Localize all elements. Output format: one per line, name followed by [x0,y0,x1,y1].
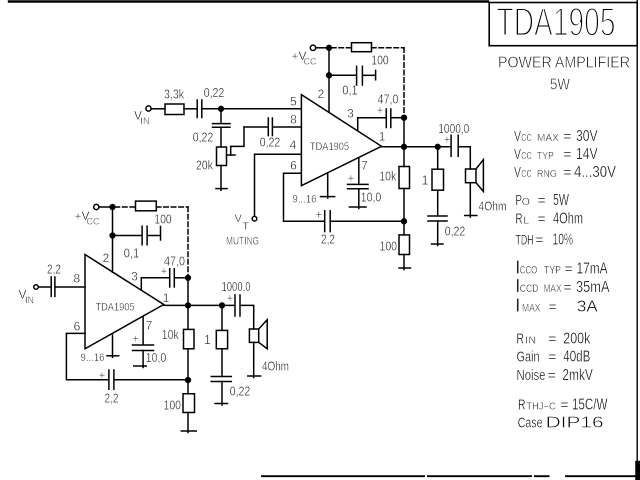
svg-text:10k: 10k [162,328,180,342]
svg-text:IN: IN [525,335,536,347]
svg-text:TDA1905: TDA1905 [310,141,349,153]
page right border [636,0,638,480]
svg-text:TYP: TYP [544,264,561,276]
speaker LS1 [466,169,477,183]
wire pot to ground [220,166,222,191]
svg-text:TDA1905: TDA1905 [96,302,135,314]
svg-text:IN: IN [141,116,150,126]
capacitor C9 0,22 zobel [428,215,447,217]
svg-text:Case: Case [518,415,543,431]
wire 9...16 stub U2 [112,333,114,357]
capacitor C2 0,22 shunt [213,123,231,125]
wire rail to R3 [403,147,405,167]
resistor R2 100 [352,43,372,52]
wire speaker to ground [469,183,471,217]
svg-text:2: 2 [103,251,110,265]
svg-text:17mA: 17mA [577,260,608,277]
svg-text:100: 100 [380,240,398,254]
svg-text:=: = [548,331,556,347]
capacitor C6 10,0 [348,183,369,185]
wire VIN1 to R1 [151,108,165,110]
svg-text:I: I [515,296,520,316]
svg-text:100: 100 [371,54,389,68]
wire 9...16 stub [327,173,329,198]
capacitor C11 0,1 [141,226,143,245]
wire C14 to node C [114,379,188,381]
svg-text:0,22: 0,22 [260,136,281,150]
svg-text:+: + [348,173,355,185]
capacitor C8 1000,0 output [450,135,452,156]
svg-text:CC: CC [521,150,532,162]
svg-text:=: = [548,367,556,383]
terminal VT muting [252,216,257,221]
ground 9...16 U2 [107,355,119,357]
resistor R7 10k [184,329,195,348]
capacitor C16 0,22 zobel U2 [211,376,231,378]
terminal VIN1 [146,106,151,111]
resistor R5 1 [432,169,444,190]
svg-text:0,22: 0,22 [193,131,214,145]
svg-text:T: T [243,220,250,232]
svg-text:35mA: 35mA [576,279,610,296]
svg-text:=: = [538,211,546,227]
svg-text:RNG: RNG [537,168,557,180]
page bottom border [262,475,636,477]
wire pin6 loop [284,173,324,221]
svg-text:4: 4 [290,138,297,152]
node C11 end tick [160,227,162,241]
node output junction U2 [186,303,191,308]
svg-text:=: = [565,260,573,276]
op-amp U1 triangle [301,95,381,186]
node pin2/C11 junction [110,233,115,238]
svg-text:47,0: 47,0 [378,92,399,106]
wire C2 to pot [220,127,222,147]
svg-text:2: 2 [318,87,325,101]
wire R3 to node B [403,189,405,235]
resistor R3 10k [399,167,410,189]
capacitor C7 2,2 feedback [324,211,326,232]
terminal +Vcc1 [310,45,315,50]
svg-text:10%: 10% [553,231,574,248]
page top border [9,0,488,2]
svg-text:3: 3 [131,270,138,284]
svg-text:CC: CC [521,132,532,144]
node Vcc2 junction [110,205,115,210]
svg-text:POWER AMPLIFIER: POWER AMPLIFIER [498,55,630,72]
wire dashed R2 to rail [372,47,405,49]
node B feedback junction [402,219,407,224]
svg-text:Noise: Noise [517,368,546,384]
ground 9...16 [321,196,335,198]
svg-text:30V: 30V [576,128,598,145]
wire zobel down [437,147,439,169]
capacitor C13 10,0 [133,344,154,346]
capacitor C14 2,2 feedback U2 [108,370,110,389]
wire dashed Vcc2 to R6 [115,206,136,208]
svg-text:=: = [538,192,546,208]
svg-text:+: + [161,266,168,278]
wire output U2 [164,304,235,306]
wire pin7 stub U2 [142,316,144,344]
wire rail to R7 [187,305,189,329]
wire zobel down U2 [221,305,223,330]
node rail top junction [402,115,407,120]
svg-text:Gain: Gain [517,350,540,366]
wire C12 to rail [175,277,188,279]
node C4 end tick [375,70,377,79]
ground pot [216,188,227,190]
svg-text:=: = [535,231,543,247]
wire dashed rail down U2 [187,207,189,275]
wire to C11 [113,235,142,237]
svg-text:1: 1 [379,130,386,144]
svg-text:+: + [227,293,234,305]
svg-text:7: 7 [361,159,368,173]
svg-text:10,0: 10,0 [146,351,167,365]
resistor R8 100 [183,394,195,413]
wire R9 to C16 [221,349,223,376]
svg-text:MAX: MAX [537,132,559,144]
wire rail to output [403,118,405,147]
wire C8 to speaker [459,147,471,169]
wire R1 to C1 [184,108,197,110]
svg-text:1000,0: 1000,0 [222,280,251,294]
wire to C3 [244,126,268,128]
svg-text:V: V [514,146,521,163]
svg-text:6: 6 [290,159,297,173]
svg-text:+: + [377,105,384,117]
svg-text:DIP16: DIP16 [546,414,604,431]
capacitor C12 47,0 [169,269,171,287]
wire pin2 vertical U2 [112,207,114,272]
svg-text:20k: 20k [196,159,214,173]
svg-text:9...16: 9...16 [293,194,317,206]
svg-text:CC: CC [521,168,532,180]
svg-text:2,2: 2,2 [321,233,335,247]
wire dashed Vcc to R2 [332,47,352,49]
node rail top junction U2 [186,275,191,280]
wire dashed R6 to rail [156,206,188,208]
svg-text:2,2: 2,2 [105,392,119,406]
wire pin2 vertical [328,48,330,113]
svg-text:7: 7 [146,319,153,333]
svg-text:MAX: MAX [522,303,541,315]
svg-text:L: L [523,215,529,227]
svg-text:3: 3 [347,107,354,121]
svg-text:5W: 5W [553,192,570,209]
capacitor C3 0,22 pin8 [267,118,269,136]
svg-text:8: 8 [73,271,80,285]
wire pin4 [255,154,302,216]
wire rail to output U2 [187,278,189,306]
wire C15 to speaker [241,305,254,329]
terminal +Vcc2 [94,204,99,209]
svg-text:10,0: 10,0 [361,191,382,205]
svg-text:4Ohm: 4Ohm [479,200,507,214]
resistor R9 1 [216,330,227,348]
svg-text:TYP: TYP [537,150,554,162]
wire wiper riser [231,127,244,155]
node output junction [402,144,407,149]
svg-text:2mkV: 2mkV [562,367,593,384]
svg-text:MAX: MAX [544,283,562,295]
resistor R4 100 [399,235,410,255]
wire Vcc2 to node [99,206,113,208]
svg-text:5: 5 [290,95,297,109]
svg-text:1: 1 [163,291,170,305]
svg-text:THJ–C: THJ–C [526,401,556,413]
svg-text:1: 1 [422,174,429,188]
wire C10 to pin8 [55,286,85,288]
page corner mark [636,462,640,480]
svg-text:=: = [563,128,571,144]
resistor R1 3,3k [165,104,184,115]
svg-text:2,2: 2,2 [47,263,61,277]
wire node A down [220,109,222,123]
svg-text:4Ohm: 4Ohm [553,211,583,228]
wire C13 to ground [142,351,144,368]
node C feedback junction U2 [186,378,191,383]
svg-text:+: + [99,370,106,382]
svg-text:3,3k: 3,3k [164,88,185,102]
op-amp U2 triangle [85,255,164,349]
ground R8 [181,430,196,432]
svg-text:0,1: 0,1 [124,247,140,261]
wire dashed rail down [403,48,405,115]
node A junction [219,106,224,111]
svg-text:100: 100 [164,399,182,413]
capacitor C15 1000,0 output U2 [234,295,236,316]
wire C4 stub [363,74,375,76]
svg-text:0,22: 0,22 [230,384,251,398]
svg-text:O: O [522,196,530,208]
svg-text:40dB: 40dB [563,349,590,366]
wire C7 to node B [331,220,404,222]
svg-text:CC: CC [304,57,317,67]
svg-text:CCO: CCO [520,264,538,276]
wire speaker to ground U2 [253,342,255,377]
node zobel junction U2 [220,303,225,308]
potentiometer P1 20k [217,147,227,166]
ground C6 [350,206,367,208]
svg-text:R: R [517,331,525,348]
svg-text:TDH: TDH [516,231,534,247]
node pin2/C4 junction [327,73,332,78]
svg-text:5W: 5W [550,77,571,94]
ground R4 [399,267,411,269]
wire C16 to ground [221,382,223,406]
title box [489,3,637,46]
wire C3 to pin8 [273,126,302,128]
pot wiper tick [227,154,236,156]
svg-text:10k: 10k [379,170,397,184]
svg-text:0,22: 0,22 [204,86,225,100]
wire pin7 stub [358,158,360,184]
svg-text:4Ohm: 4Ohm [262,360,289,374]
svg-text:0,22: 0,22 [445,224,466,238]
capacitor C1 0,22 [196,100,198,118]
svg-text:IN: IN [25,295,34,305]
speaker LS2 [249,329,258,342]
svg-text:+: + [315,210,322,222]
ground LS1 [465,215,477,217]
svg-text:=: = [549,299,557,315]
wire Vcc1 to node [316,47,329,49]
svg-text:V: V [514,164,521,181]
svg-text:1: 1 [204,333,211,347]
ground C9 [432,243,444,245]
svg-text:4...30V: 4...30V [574,164,616,181]
wire pin6 loop U2 [66,333,108,379]
svg-text:6: 6 [74,320,81,334]
svg-text:=: = [548,349,556,365]
svg-text:=: = [560,397,568,413]
svg-text:V: V [514,128,521,145]
wire C1 to pin5 [203,108,302,110]
svg-text:+: + [132,334,139,346]
svg-text:3A: 3A [577,299,598,316]
svg-text:=: = [564,279,572,295]
wire C11 stub [148,235,161,237]
wire C9 to ground [437,221,439,246]
svg-text:TDA1905: TDA1905 [497,1,616,45]
wire C6 to ground [358,189,360,209]
wire to C4 [329,74,356,76]
wire R5 to C9 [437,190,439,215]
wire C5 to rail [391,117,404,119]
node zobel junction [435,144,440,149]
svg-text:CCD: CCD [520,283,539,295]
svg-text:0,1: 0,1 [342,84,358,98]
svg-text:=: = [563,146,571,162]
capacitor C10 2,2 input [50,277,52,296]
svg-text:R: R [516,211,523,228]
svg-text:CC: CC [87,217,100,227]
capacitor C4 0,1 [356,66,358,85]
svg-text:200k: 200k [563,331,591,348]
wire R4 to ground [403,255,405,270]
wire VIN2 to C10 [38,286,50,288]
svg-text:+: + [444,135,451,147]
svg-text:8: 8 [290,113,297,127]
ground LS2 [248,375,261,377]
resistor R6 100 [136,201,157,211]
wire R8 to ground [187,413,189,433]
svg-text:9...16: 9...16 [81,352,105,364]
svg-text:=: = [563,164,571,180]
svg-text:100: 100 [154,213,172,227]
ground C13 [134,365,147,367]
wire output [382,146,451,148]
svg-text:MUTING: MUTING [226,235,259,247]
svg-text:R: R [518,397,526,414]
wire pin3 stub U2 [141,278,169,291]
node Vcc1 junction [327,45,332,50]
wire pin3 stub [358,118,386,131]
terminal VIN2 [34,285,39,290]
wire R7 to node C [187,349,189,394]
ground C16 [215,403,228,405]
capacitor C5 47,0 [385,109,387,128]
svg-text:14V: 14V [576,146,598,163]
svg-text:15C/W: 15C/W [572,397,608,414]
svg-text:V: V [235,213,243,225]
